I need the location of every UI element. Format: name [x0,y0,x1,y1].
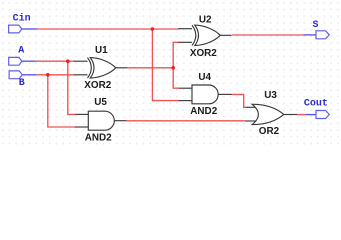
input port Cin [9,25,37,33]
junction Cin net [151,27,155,31]
svg-text:AND2: AND2 [85,132,112,143]
svg-text:B: B [19,78,25,89]
svg-text:S: S [313,20,319,31]
wire U2 output to S [232,34,303,36]
output port S [303,31,329,39]
svg-text:XOR2: XOR2 [190,48,217,59]
xor gate U2 [179,25,232,45]
wire Cin net horizontal [36,28,179,30]
input port A [9,57,36,65]
wire U3 output to Cout [297,114,305,116]
svg-text:U2: U2 [199,14,212,25]
svg-text:Cin: Cin [13,13,31,25]
wire Cin net vertical drop to U4 [152,29,179,101]
wire A net vertical drop to U5 [68,61,76,114]
output port Cout [305,111,329,119]
svg-text:Cout: Cout [304,99,328,110]
junction U1 output net [171,66,175,70]
svg-text:A: A [18,46,24,57]
svg-text:U1: U1 [95,45,108,56]
wire U4 output to U3 [232,94,246,107]
wire B net vertical drop to U5 [48,75,75,127]
svg-text:XOR2: XOR2 [84,80,111,91]
and gate U4 [179,85,232,104]
junction A net [66,59,70,63]
wire B net horizontal [36,74,74,76]
wire A net horizontal [36,60,75,62]
wire U1 output net vertical branch [173,42,180,88]
svg-text:U3: U3 [264,90,277,101]
svg-text:U5: U5 [94,97,107,108]
svg-text:U4: U4 [198,72,211,83]
input port B [9,71,36,79]
xor gate U1 [74,58,127,78]
wire U5 output to U3 [126,120,244,122]
wire U1 output net [127,67,173,69]
and gate U5 [75,111,127,130]
svg-text:AND2: AND2 [190,106,217,117]
or gate U3 [245,104,297,124]
junction B net [46,73,50,77]
svg-text:OR2: OR2 [259,126,280,137]
